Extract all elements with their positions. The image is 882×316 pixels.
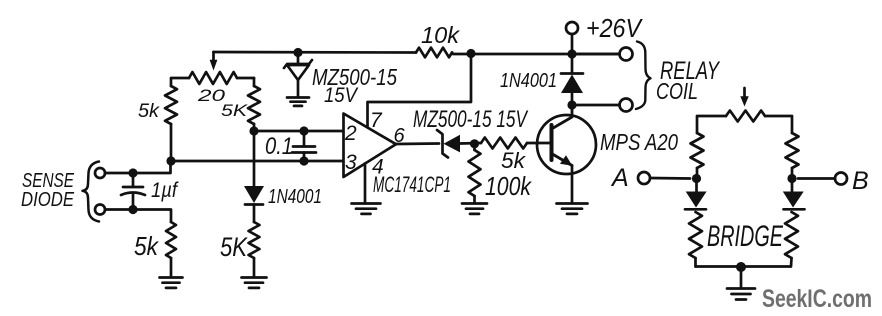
potentiometer 20 wiper arrow bbox=[210, 52, 218, 71]
label 100k bbox=[485, 171, 533, 201]
label 15V bbox=[324, 84, 359, 107]
svg-text:5K: 5K bbox=[220, 232, 248, 262]
label 5K right-upper bbox=[221, 101, 248, 120]
node junction cap 0.1 bottom bbox=[299, 156, 308, 165]
resistor 5k base bbox=[481, 138, 550, 149]
label MPS A20 bbox=[600, 129, 678, 155]
zener diode MZ500-15 15V output bbox=[437, 130, 481, 158]
terminal +26V bbox=[566, 22, 578, 54]
wire top supply rail left segment bbox=[214, 51, 417, 54]
svg-text:SeekIC.com: SeekIC.com bbox=[762, 285, 872, 313]
terminal A bbox=[638, 172, 690, 184]
node junction rail to op-amp pin7 bbox=[466, 49, 475, 58]
zener diode MZ500-15 left bbox=[284, 53, 312, 98]
svg-text:B: B bbox=[852, 167, 869, 195]
node junction cap 1µf bottom bbox=[128, 205, 137, 214]
resistor 5k left-upper bbox=[165, 78, 177, 161]
wire non-inverting input pin3 bbox=[171, 160, 343, 163]
svg-text:15V: 15V bbox=[324, 84, 359, 107]
bridge potentiometer arrow bbox=[740, 88, 748, 107]
svg-text:0.1: 0.1 bbox=[265, 133, 293, 160]
wire sense top bbox=[105, 161, 171, 173]
svg-text:1N4001: 1N4001 bbox=[500, 70, 557, 92]
bridge potentiometer body bbox=[726, 111, 765, 122]
bridge resistor lower-right bbox=[785, 212, 798, 267]
node junction bridge left bbox=[692, 174, 701, 183]
bridge resistor upper-right bbox=[786, 133, 799, 179]
wire op-amp output bbox=[396, 142, 439, 145]
label 5k base bbox=[501, 148, 526, 173]
node junction pin2 divider bbox=[249, 126, 258, 135]
ground below bridge bbox=[727, 267, 755, 300]
node junction cap 0.1 top bbox=[299, 126, 308, 135]
node junction relay lower bbox=[567, 100, 576, 109]
pin number 7 bbox=[370, 109, 383, 132]
label DIODE bbox=[21, 189, 75, 211]
svg-text:10k: 10k bbox=[421, 22, 461, 48]
svg-text:5k: 5k bbox=[501, 148, 526, 173]
ground below 5k mid bbox=[242, 278, 267, 288]
label 1N4001 mid bbox=[268, 186, 322, 208]
bridge diode left bbox=[685, 179, 707, 210]
brace relay coil bbox=[636, 42, 651, 110]
svg-text:1N4001: 1N4001 bbox=[268, 186, 322, 208]
svg-text:3: 3 bbox=[345, 151, 357, 174]
svg-text:7: 7 bbox=[370, 109, 383, 132]
label 5k sense bbox=[134, 231, 160, 261]
label 0.1 bbox=[265, 133, 293, 160]
wire op-amp pin7 riser bbox=[368, 54, 472, 128]
ground below 100k bbox=[462, 204, 487, 214]
brace sense diode bbox=[83, 162, 100, 222]
terminal B bbox=[798, 173, 847, 185]
potentiometer 20 body bbox=[172, 72, 254, 84]
svg-text:A: A bbox=[610, 164, 629, 192]
wire rail from 10k to +26V node bbox=[452, 53, 620, 55]
bridge diode right bbox=[783, 179, 805, 210]
svg-text:+26V: +26V bbox=[586, 13, 643, 43]
node junction at zener top bbox=[293, 48, 302, 57]
ground below zener MZ500-15 bbox=[287, 98, 309, 106]
ground below transistor emitter bbox=[557, 204, 588, 214]
node junction cap 1µf top bbox=[128, 168, 137, 177]
node junction zener output bbox=[470, 139, 479, 148]
wire to relay coil upper terminal bbox=[572, 53, 620, 56]
pin number 3 bbox=[345, 151, 357, 174]
pin number 4 bbox=[372, 156, 384, 179]
diode 1N4001 mid bbox=[244, 131, 264, 222]
node junction +26V rail bbox=[567, 49, 576, 58]
label 5k mid bbox=[220, 232, 248, 262]
terminal relay coil upper bbox=[620, 48, 633, 61]
label BRIDGE bbox=[707, 220, 784, 253]
ground below 5k sense bbox=[160, 278, 183, 288]
svg-text:5k: 5k bbox=[134, 231, 160, 261]
wire op-amp pin4 to ground bbox=[364, 164, 367, 204]
svg-text:1µf: 1µf bbox=[151, 179, 179, 202]
node junction bridge right bbox=[787, 174, 796, 183]
wire to relay coil lower terminal bbox=[572, 104, 620, 107]
label A bbox=[610, 164, 629, 192]
terminal sense top bbox=[95, 168, 105, 178]
label 5k left-upper bbox=[138, 101, 161, 122]
label 20 bbox=[197, 86, 226, 105]
svg-text:100k: 100k bbox=[485, 171, 533, 201]
diode 1N4001 relay clamp bbox=[561, 54, 583, 105]
label MZ500-15 15V bbox=[413, 106, 528, 133]
label RELAY bbox=[660, 57, 721, 85]
label MC1741CP1 bbox=[373, 172, 451, 197]
capacitor 0.1 bbox=[292, 131, 316, 161]
resistor 5k mid bbox=[249, 222, 260, 277]
svg-text:2: 2 bbox=[344, 122, 357, 145]
pin number 6 bbox=[394, 125, 406, 147]
svg-text:MC1741CP1: MC1741CP1 bbox=[373, 172, 451, 197]
op-amp U1 MC1741CP1 body bbox=[344, 114, 397, 178]
watermark SeekIC.com bbox=[762, 285, 872, 313]
label 1N4001 relay clamp bbox=[500, 70, 557, 92]
node junction pin3 left bbox=[166, 156, 175, 165]
label MZ500-15 bbox=[312, 64, 397, 90]
svg-text:COIL: COIL bbox=[656, 78, 698, 104]
wire inverting input pin2 bbox=[254, 130, 343, 133]
label SENSE bbox=[22, 170, 74, 192]
label 10k bbox=[421, 22, 461, 48]
resistor 5k sense bbox=[166, 222, 176, 277]
wire sense bottom bbox=[105, 210, 171, 223]
label COIL bbox=[656, 78, 698, 104]
resistor 100k bbox=[469, 144, 481, 203]
bridge resistor lower-left bbox=[689, 212, 702, 267]
svg-text:MZ500-15 15V: MZ500-15 15V bbox=[413, 106, 528, 133]
label +26V bbox=[586, 13, 643, 43]
wire bridge bottom rail bbox=[696, 265, 791, 268]
transistor Q1 MPS A20 bbox=[537, 105, 596, 203]
ground below op-amp pin4 bbox=[352, 204, 381, 214]
pin number 2 bbox=[344, 122, 357, 145]
resistor 5k right-upper bbox=[248, 78, 260, 131]
svg-text:5k: 5k bbox=[138, 101, 161, 122]
capacitor 1µf bbox=[121, 173, 145, 210]
svg-text:DIODE: DIODE bbox=[21, 189, 75, 211]
label 1µf bbox=[151, 179, 179, 202]
label B bbox=[852, 167, 869, 195]
wire bridge top rail bbox=[697, 116, 792, 133]
svg-text:5K: 5K bbox=[221, 101, 248, 120]
node junction bridge bottom bbox=[736, 262, 746, 272]
terminal relay coil lower bbox=[620, 99, 633, 112]
bridge resistor upper-left bbox=[691, 133, 704, 179]
resistor 10k bbox=[416, 48, 452, 58]
svg-text:BRIDGE: BRIDGE bbox=[707, 220, 784, 253]
terminal sense bottom bbox=[95, 205, 105, 215]
svg-text:MPS A20: MPS A20 bbox=[600, 129, 678, 155]
